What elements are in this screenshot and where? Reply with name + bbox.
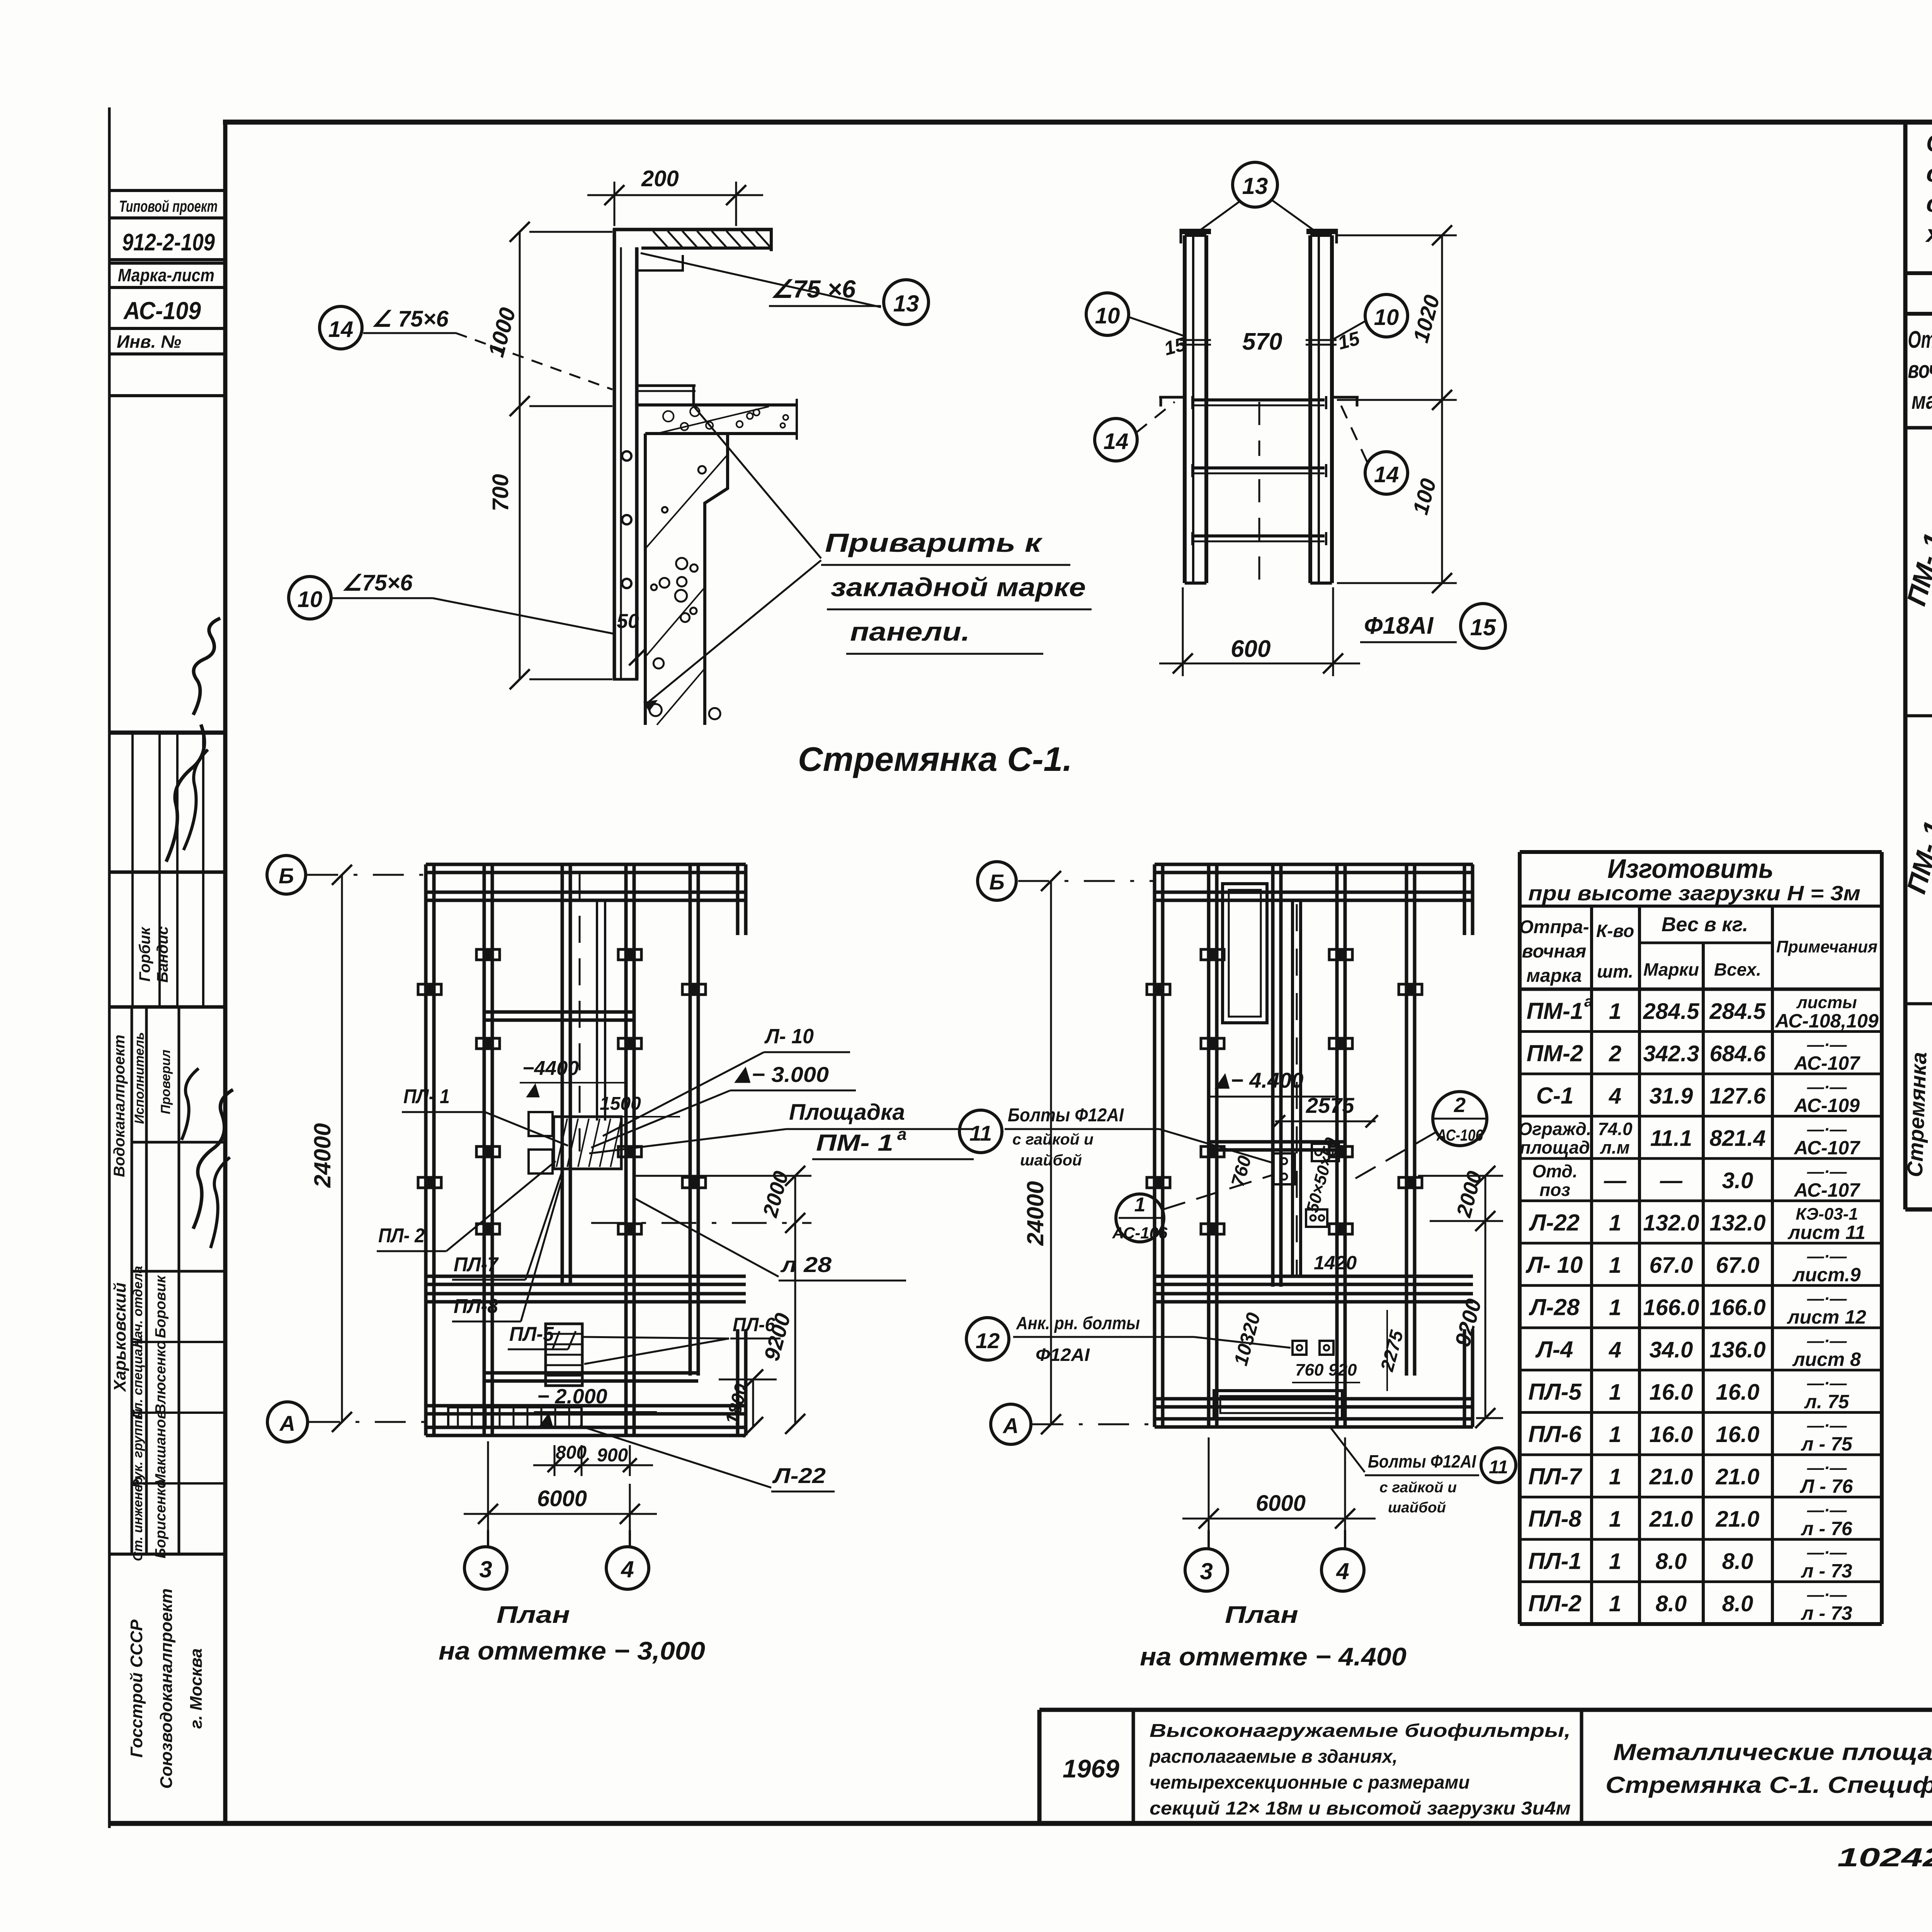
svg-text:Водоканалпроект: Водоканалпроект [111,1035,128,1177]
svg-text:ПЛ-8: ПЛ-8 [454,1295,498,1318]
svg-text:Б: Б [989,870,1005,894]
svg-text:четырехсекционные с размерам: четырехсекционные с размерами [1150,1772,1470,1793]
svg-text:ПЛ-1: ПЛ-1 [1528,1548,1582,1574]
svg-text:1: 1 [1609,1549,1621,1574]
svg-text:АС-106: АС-106 [1436,1126,1483,1144]
svg-text:секций 12× 18м и высотой заг: секций 12× 18м и высотой загрузки 3и4м [1150,1798,1571,1819]
svg-text:Ф12АI: Ф12АI [1036,1345,1090,1365]
svg-text:—: — [1660,1168,1683,1193]
svg-text:8.0: 8.0 [1656,1591,1687,1616]
svg-text:а: а [1584,993,1593,1010]
svg-text:10: 10 [1374,305,1399,330]
svg-text:л - 75: л - 75 [1801,1433,1852,1455]
svg-text:Госстрой СССР: Госстрой СССР [127,1619,146,1758]
svg-text:10: 10 [298,587,323,612]
svg-text:1: 1 [1609,1507,1621,1532]
svg-text:16.0: 16.0 [1716,1380,1760,1405]
svg-text:АС-106: АС-106 [1112,1224,1168,1242]
svg-text:760: 760 [1295,1361,1324,1379]
svg-text:15: 15 [1470,614,1497,640]
svg-text:200: 200 [641,166,679,191]
svg-text:А: А [279,1411,295,1435]
svg-text:4: 4 [1609,1337,1621,1362]
svg-text:284.5: 284.5 [1709,999,1766,1024]
svg-text:8.0: 8.0 [1656,1549,1687,1574]
svg-text:Отпра-: Отпра- [1519,917,1589,937]
svg-text:67.0: 67.0 [1650,1253,1693,1278]
svg-text:Высоконагружаемые биофильтры: Высоконагружаемые биофильтры, [1150,1721,1571,1741]
svg-text:—·—: —·— [1807,1543,1847,1562]
svg-text:ПЛ-5: ПЛ-5 [1528,1379,1582,1405]
svg-text:−4400: −4400 [522,1057,579,1080]
svg-text:13: 13 [1242,173,1268,199]
svg-text:Б: Б [279,864,294,888]
svg-text:ПЛ-8: ПЛ-8 [1528,1506,1582,1532]
svg-text:Стремянка С-1.: Стремянка С-1. [798,740,1072,778]
svg-text:21.0: 21.0 [1716,1464,1760,1490]
svg-text:Изготовить: Изготовить [1607,854,1774,884]
svg-text:1: 1 [1609,1422,1621,1447]
svg-text:1: 1 [1609,1380,1621,1405]
svg-text:Ст. инженер: Ст. инженер [131,1477,145,1561]
svg-text:состоянии согласно п. 2,5,: состоянии согласно п. 2,5, 2g и предельн… [1926,190,1932,217]
svg-text:∠ 75×6: ∠ 75×6 [372,306,449,332]
svg-text:920: 920 [1328,1361,1357,1379]
svg-text:− 3.000: − 3.000 [752,1062,829,1087]
svg-text:284.5: 284.5 [1643,999,1699,1024]
svg-text:6000: 6000 [537,1486,587,1511]
svg-text:Огражд.: Огражд. [1518,1119,1591,1139]
svg-text:закладной марке: закладной марке [831,573,1086,602]
svg-text:КЭ-03-1: КЭ-03-1 [1796,1204,1858,1223]
svg-text:лист 12: лист 12 [1787,1306,1866,1328]
svg-text:шт.: шт. [1597,961,1633,981]
svg-text:—·—: —·— [1807,1332,1847,1350]
svg-text:Стремянка: Стремянка [1902,1051,1931,1177]
svg-text:2: 2 [1609,1041,1621,1066]
svg-text:900: 900 [597,1445,628,1466]
svg-text:марка: марка [1912,388,1932,414]
svg-text:14: 14 [1374,462,1399,487]
svg-text:11.1: 11.1 [1650,1126,1692,1151]
svg-text:11: 11 [1489,1457,1508,1478]
svg-text:АС-109: АС-109 [123,297,201,325]
svg-text:—·—: —·— [1807,1120,1847,1139]
svg-text:Марки: Марки [1643,959,1699,980]
svg-text:132.0: 132.0 [1709,1210,1765,1235]
svg-text:1: 1 [1609,1253,1621,1278]
svg-text:14: 14 [328,317,354,342]
svg-text:л 28: л 28 [780,1252,832,1277]
svg-text:ПЛ-6: ПЛ-6 [1528,1421,1582,1447]
svg-text:Болты Ф12АI: Болты Ф12АI [1008,1105,1124,1126]
svg-text:ПЛ-5: ПЛ-5 [509,1323,554,1345]
svg-text:АС-107: АС-107 [1793,1179,1861,1201]
svg-text:16.0: 16.0 [1716,1422,1760,1447]
svg-text:л. 75: л. 75 [1804,1391,1850,1413]
svg-text:Анк. рн. болты: Анк. рн. болты [1016,1313,1140,1333]
svg-text:1: 1 [1609,1295,1621,1320]
svg-text:А: А [1002,1413,1019,1438]
svg-text:—·—: —·— [1807,1585,1847,1604]
svg-text:химических элементов, соглас: химических элементов, согласно п.п. 2,6,… [1925,221,1932,247]
svg-text:10: 10 [1095,303,1120,328]
svg-text:Борисенко: Борисенко [153,1480,169,1558]
svg-text:Ф18АI: Ф18АI [1364,612,1434,639]
svg-text:Всех.: Всех. [1714,959,1761,980]
svg-text:Л - 76: Л - 76 [1800,1476,1854,1497]
svg-text:ПМ-1: ПМ-1 [1527,998,1583,1024]
svg-text:шайбой: шайбой [1020,1152,1082,1169]
svg-text:684.6: 684.6 [1709,1041,1766,1066]
svg-text:ПМ-2: ПМ-2 [1527,1040,1583,1066]
svg-text:1: 1 [1134,1194,1146,1216]
svg-text:821.4: 821.4 [1709,1126,1765,1151]
svg-text:24000: 24000 [310,1123,335,1188]
svg-text:Вес в кг.: Вес в кг. [1662,913,1748,936]
svg-text:6000: 6000 [1256,1491,1306,1516]
svg-text:Площадка: Площадка [789,1100,905,1125]
svg-text:Боровик: Боровик [153,1275,169,1338]
svg-text:Влюсенко: Влюсенко [153,1340,169,1414]
svg-text:лист 8: лист 8 [1792,1349,1861,1370]
svg-text:700: 700 [488,474,513,512]
svg-text:С-1: С-1 [1536,1083,1574,1109]
svg-text:Гл. специал.: Гл. специал. [131,1337,145,1418]
svg-text:136.0: 136.0 [1709,1337,1765,1362]
svg-text:1420: 1420 [1314,1252,1357,1274]
svg-text:л.м: л.м [1600,1137,1629,1157]
svg-text:8.0: 8.0 [1722,1591,1753,1616]
svg-text:вочная: вочная [1522,941,1587,962]
svg-text:800: 800 [556,1442,587,1463]
svg-text:1: 1 [1609,1591,1621,1616]
svg-text:л - 76: л - 76 [1801,1518,1852,1539]
svg-text:ПЛ- 1: ПЛ- 1 [403,1085,450,1108]
svg-text:34.0: 34.0 [1650,1337,1693,1362]
svg-text:—: — [1604,1168,1627,1193]
svg-text:3: 3 [1200,1558,1213,1584]
svg-text:Харьковский: Харьковский [111,1282,129,1393]
svg-text:марка: марка [1526,966,1582,986]
svg-text:21.0: 21.0 [1716,1507,1760,1532]
svg-text:3: 3 [479,1556,492,1582]
svg-text:АС-107: АС-107 [1793,1052,1861,1074]
svg-text:—·—: —·— [1807,1247,1847,1266]
svg-text:4: 4 [621,1556,634,1582]
svg-text:1: 1 [1609,1210,1621,1235]
svg-text:АС-109: АС-109 [1793,1095,1860,1116]
svg-text:План: План [497,1602,570,1628]
svg-text:912-2-109: 912-2-109 [122,229,215,256]
svg-text:Л- 10: Л- 10 [764,1025,814,1048]
svg-text:1969: 1969 [1063,1754,1119,1783]
svg-text:л - 73: л - 73 [1801,1602,1852,1624]
svg-text:− 4.400: − 4.400 [1231,1068,1303,1092]
svg-text:на отметке − 4.400: на отметке − 4.400 [1140,1642,1406,1671]
svg-text:—·—: —·— [1807,1416,1847,1435]
svg-text:Болты Ф12АI: Болты Ф12АI [1368,1451,1476,1471]
svg-text:—·—: —·— [1807,1078,1847,1097]
svg-text:панели.: панели. [850,617,970,646]
svg-text:2: 2 [1454,1094,1466,1117]
svg-text:АС-107: АС-107 [1793,1137,1861,1158]
svg-text:—·—: —·— [1807,1289,1847,1308]
svg-text:∠75×6: ∠75×6 [342,570,413,595]
svg-text:Союзводоканалпроект: Союзводоканалпроект [157,1588,176,1789]
svg-text:67.0: 67.0 [1716,1253,1760,1278]
svg-text:листы: листы [1796,993,1857,1012]
svg-text:ПЛ-6: ПЛ-6 [733,1314,776,1335]
svg-text:—·—: —·— [1807,1501,1847,1520]
svg-text:—·—: —·— [1807,1459,1847,1478]
svg-text:74.0: 74.0 [1598,1119,1633,1139]
svg-text:342.3: 342.3 [1643,1041,1699,1066]
svg-text:166.0: 166.0 [1709,1295,1765,1320]
svg-text:127.6: 127.6 [1709,1083,1766,1109]
svg-text:при высоте загрузки Н = 3м: при высоте загрузки Н = 3м [1528,882,1861,905]
svg-text:11: 11 [969,1121,992,1145]
svg-text:Отпра-: Отпра- [1908,327,1932,353]
svg-text:570: 570 [1242,328,1282,355]
svg-text:вочная: вочная [1908,357,1932,383]
svg-text:с дополнительными гарантиями: с дополнительными гарантиями загиба в хо… [1926,160,1932,187]
svg-text:ПМ- 1: ПМ- 1 [816,1130,893,1156]
svg-text:Нач. отдела: Нач. отдела [131,1266,145,1348]
svg-text:л - 73: л - 73 [1801,1560,1852,1582]
svg-text:ПЛ-2: ПЛ-2 [1528,1590,1582,1616]
svg-text:на отметке − 3,000: на отметке − 3,000 [439,1636,705,1665]
svg-text:Рук. группы: Рук. группы [131,1408,145,1488]
svg-text:ПЛ-7: ПЛ-7 [454,1253,499,1276]
svg-text:12: 12 [976,1328,1000,1353]
svg-text:Типовой проект: Типовой проект [119,197,218,215]
svg-text:Исполнитель: Исполнитель [132,1032,147,1124]
svg-text:14: 14 [1104,429,1129,454]
svg-text:21.0: 21.0 [1649,1507,1693,1532]
svg-text:2575: 2575 [1306,1093,1354,1117]
svg-text:а: а [897,1125,906,1144]
svg-text:Отд.: Отд. [1532,1161,1577,1181]
svg-text:Л-28: Л-28 [1529,1294,1580,1320]
svg-text:—·—: —·— [1807,1035,1847,1054]
svg-text:ПЛ-7: ПЛ-7 [1528,1464,1582,1490]
svg-text:Примечания: Примечания [1776,937,1878,956]
svg-text:План: План [1225,1602,1298,1628]
svg-text:Бандис: Бандис [154,926,171,983]
svg-text:− 2.000: − 2.000 [537,1385,607,1408]
svg-text:1500: 1500 [600,1094,641,1114]
svg-text:ПЛ- 2: ПЛ- 2 [378,1225,425,1247]
svg-text:4: 4 [1609,1083,1621,1109]
svg-text:1: 1 [1609,1464,1621,1490]
svg-text:16.0: 16.0 [1650,1422,1693,1447]
svg-text:лист 11: лист 11 [1787,1221,1866,1243]
svg-text:132.0: 132.0 [1643,1210,1699,1235]
svg-text:с гайкой и: с гайкой и [1379,1480,1457,1496]
svg-text:Марка-лист: Марка-лист [118,265,214,285]
svg-text:—·—: —·— [1807,1374,1847,1393]
svg-text:располагаемые в зданиях,: располагаемые в зданиях, [1149,1747,1398,1767]
svg-text:24000: 24000 [1022,1181,1048,1246]
svg-text:лист.9: лист.9 [1793,1264,1861,1286]
svg-text:Л-22: Л-22 [1529,1209,1580,1235]
svg-text:шайбой: шайбой [1388,1500,1446,1516]
svg-text:г. Москва: г. Москва [187,1648,206,1729]
svg-text:с гайкой и: с гайкой и [1012,1131,1094,1148]
svg-text:площад: площад [1520,1137,1590,1157]
svg-text:50: 50 [617,610,639,633]
svg-text:8.0: 8.0 [1722,1549,1753,1574]
svg-text:Л- 10: Л- 10 [1526,1252,1583,1278]
svg-text:Л-22: Л-22 [772,1463,826,1488]
svg-text:Сталь ВК Ст-3кп для сварных: Сталь ВК Ст-3кп для сварных конструкций … [1926,130,1932,157]
svg-text:16.0: 16.0 [1650,1380,1693,1405]
svg-text:Проверил: Проверил [158,1049,173,1114]
svg-text:31.9: 31.9 [1650,1083,1693,1109]
svg-text:Инв. №: Инв. № [117,332,181,352]
svg-text:166.0: 166.0 [1643,1295,1699,1320]
svg-text:600: 600 [1231,636,1270,662]
svg-text:13: 13 [893,291,919,316]
svg-text:Л-4: Л-4 [1535,1337,1573,1362]
svg-text:1: 1 [1609,999,1621,1024]
svg-text:Приварить к: Приварить к [825,528,1043,558]
svg-text:Металлические площадки и л: Металлические площадки и лестницы. [1613,1739,1932,1765]
svg-text:Стремянка С-1. Спецификация: Стремянка С-1. Спецификация металла. [1605,1772,1932,1798]
svg-text:4: 4 [1336,1558,1349,1584]
svg-text:3.0: 3.0 [1722,1168,1753,1193]
svg-text:АС-108,109: АС-108,109 [1774,1010,1878,1032]
svg-text:21.0: 21.0 [1649,1464,1693,1490]
svg-text:К-во: К-во [1596,921,1634,941]
svg-text:10242-01: 10242-01 [1837,1843,1932,1872]
svg-text:Макшанов: Макшанов [153,1410,169,1486]
svg-text:—·—: —·— [1807,1162,1847,1181]
svg-text:Горбик: Горбик [136,927,153,982]
svg-text:поз: поз [1539,1180,1570,1200]
